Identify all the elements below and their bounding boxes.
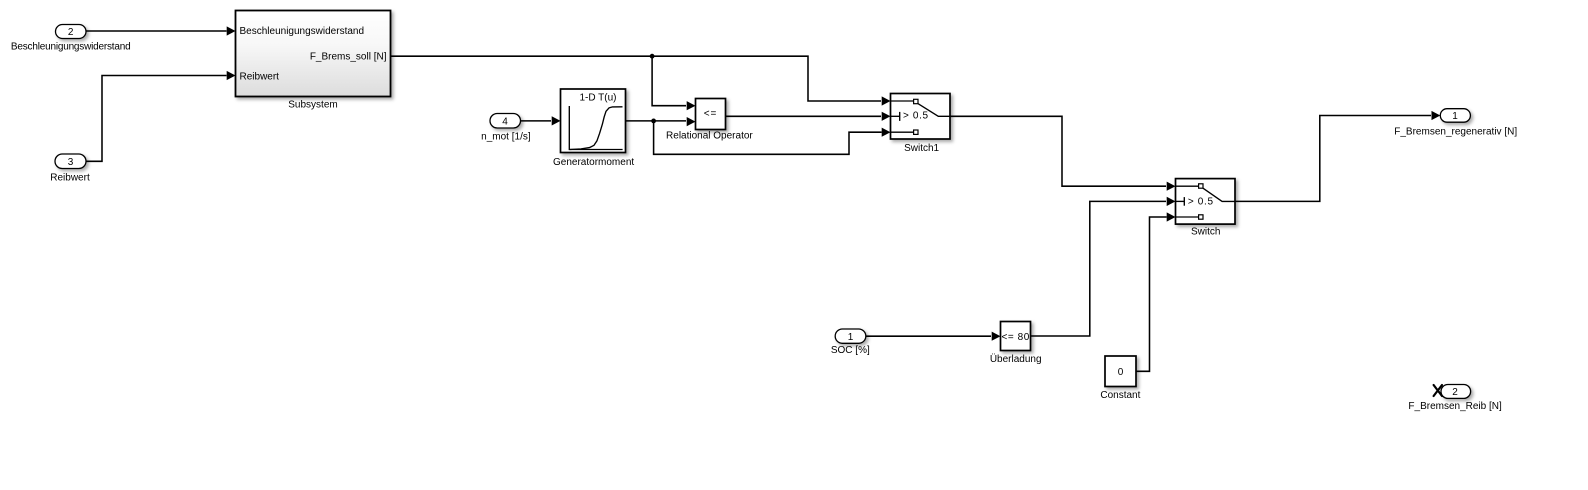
wire Ueberladung out to Switch in2 [1031,197,1176,336]
svg-text:F_Bremsen_regenerativ [N]: F_Bremsen_regenerativ [N] [1394,126,1517,137]
inport 4 (n_mot) [481,114,531,143]
constant block [1100,356,1140,401]
switch1 block [891,94,951,154]
svg-text:3: 3 [68,157,74,168]
svg-text:F_Bremsen_Reib [N]: F_Bremsen_Reib [N] [1408,401,1502,412]
svg-text:Reibwert: Reibwert [50,172,90,183]
svg-text:Constant: Constant [1100,390,1140,401]
svg-text:Switch: Switch [1191,226,1220,237]
wire relational operator out to Switch1 in2 [726,112,891,121]
svg-text:1: 1 [1452,111,1458,122]
subsystem block [236,11,391,111]
svg-text:Relational Operator: Relational Operator [666,131,753,142]
wire Subsystem out to Switch1 in1 [391,56,891,105]
svg-text:1-D T(u): 1-D T(u) [579,93,616,104]
wire Switch1 out to Switch in1 [950,116,1176,191]
svg-text:Reibwert: Reibwert [240,72,280,83]
wire inport3 to Subsystem in2 [86,71,236,161]
wire SOC to Ueberladung [866,332,1001,341]
wire inport2 to Subsystem in1 [86,26,236,35]
wire Switch out to outport 1 [1235,111,1440,201]
svg-text:> 0.5: > 0.5 [1188,196,1214,207]
wire lookup out to Relational Operator in2 [626,117,696,126]
outport 2 (F_Bremsen_Reib) [1408,385,1502,413]
inport 2 (Beschleunigungswiderstand) [11,25,131,53]
svg-text:4: 4 [502,117,508,128]
svg-text:Beschleunigungswiderstand: Beschleunigungswiderstand [240,26,365,37]
inport 1 (SOC) [831,329,870,356]
junction node on F_Brems_soll wire [650,54,696,111]
svg-text:Generatormoment: Generatormoment [553,157,634,168]
svg-text:Subsystem: Subsystem [288,100,337,111]
svg-text:2: 2 [1452,387,1458,398]
unconnected X mark [1434,385,1442,396]
junction node on Generatormoment wire, branch to Switch1 in3 [651,119,890,155]
svg-text:F_Brems_soll [N]: F_Brems_soll [N] [310,52,387,63]
svg-text:2: 2 [68,27,74,38]
svg-text:Beschleunigungswiderstand: Beschleunigungswiderstand [11,42,131,53]
svg-text:<= 80: <= 80 [1002,332,1030,343]
wire inport4 to lookup table [521,116,561,125]
relational operator block [666,99,753,142]
wire Constant out to Switch in3 [1136,212,1176,371]
inport 3 (Reibwert) [50,154,90,183]
switch block [1176,179,1236,238]
svg-text:<=: <= [704,108,717,119]
svg-text:1: 1 [848,332,854,343]
lookup table block Generatormoment [553,89,634,168]
svg-text:SOC [%]: SOC [%] [831,345,870,356]
svg-text:0: 0 [1118,367,1124,378]
outport 1 (F_Bremsen_regenerativ) [1394,109,1517,138]
compare-to-constant block Ueberladung [990,322,1042,365]
svg-text:Überladung: Überladung [990,353,1042,365]
svg-text:Switch1: Switch1 [904,143,939,154]
svg-text:> 0.5: > 0.5 [903,111,929,122]
svg-text:n_mot [1/s]: n_mot [1/s] [481,132,531,143]
